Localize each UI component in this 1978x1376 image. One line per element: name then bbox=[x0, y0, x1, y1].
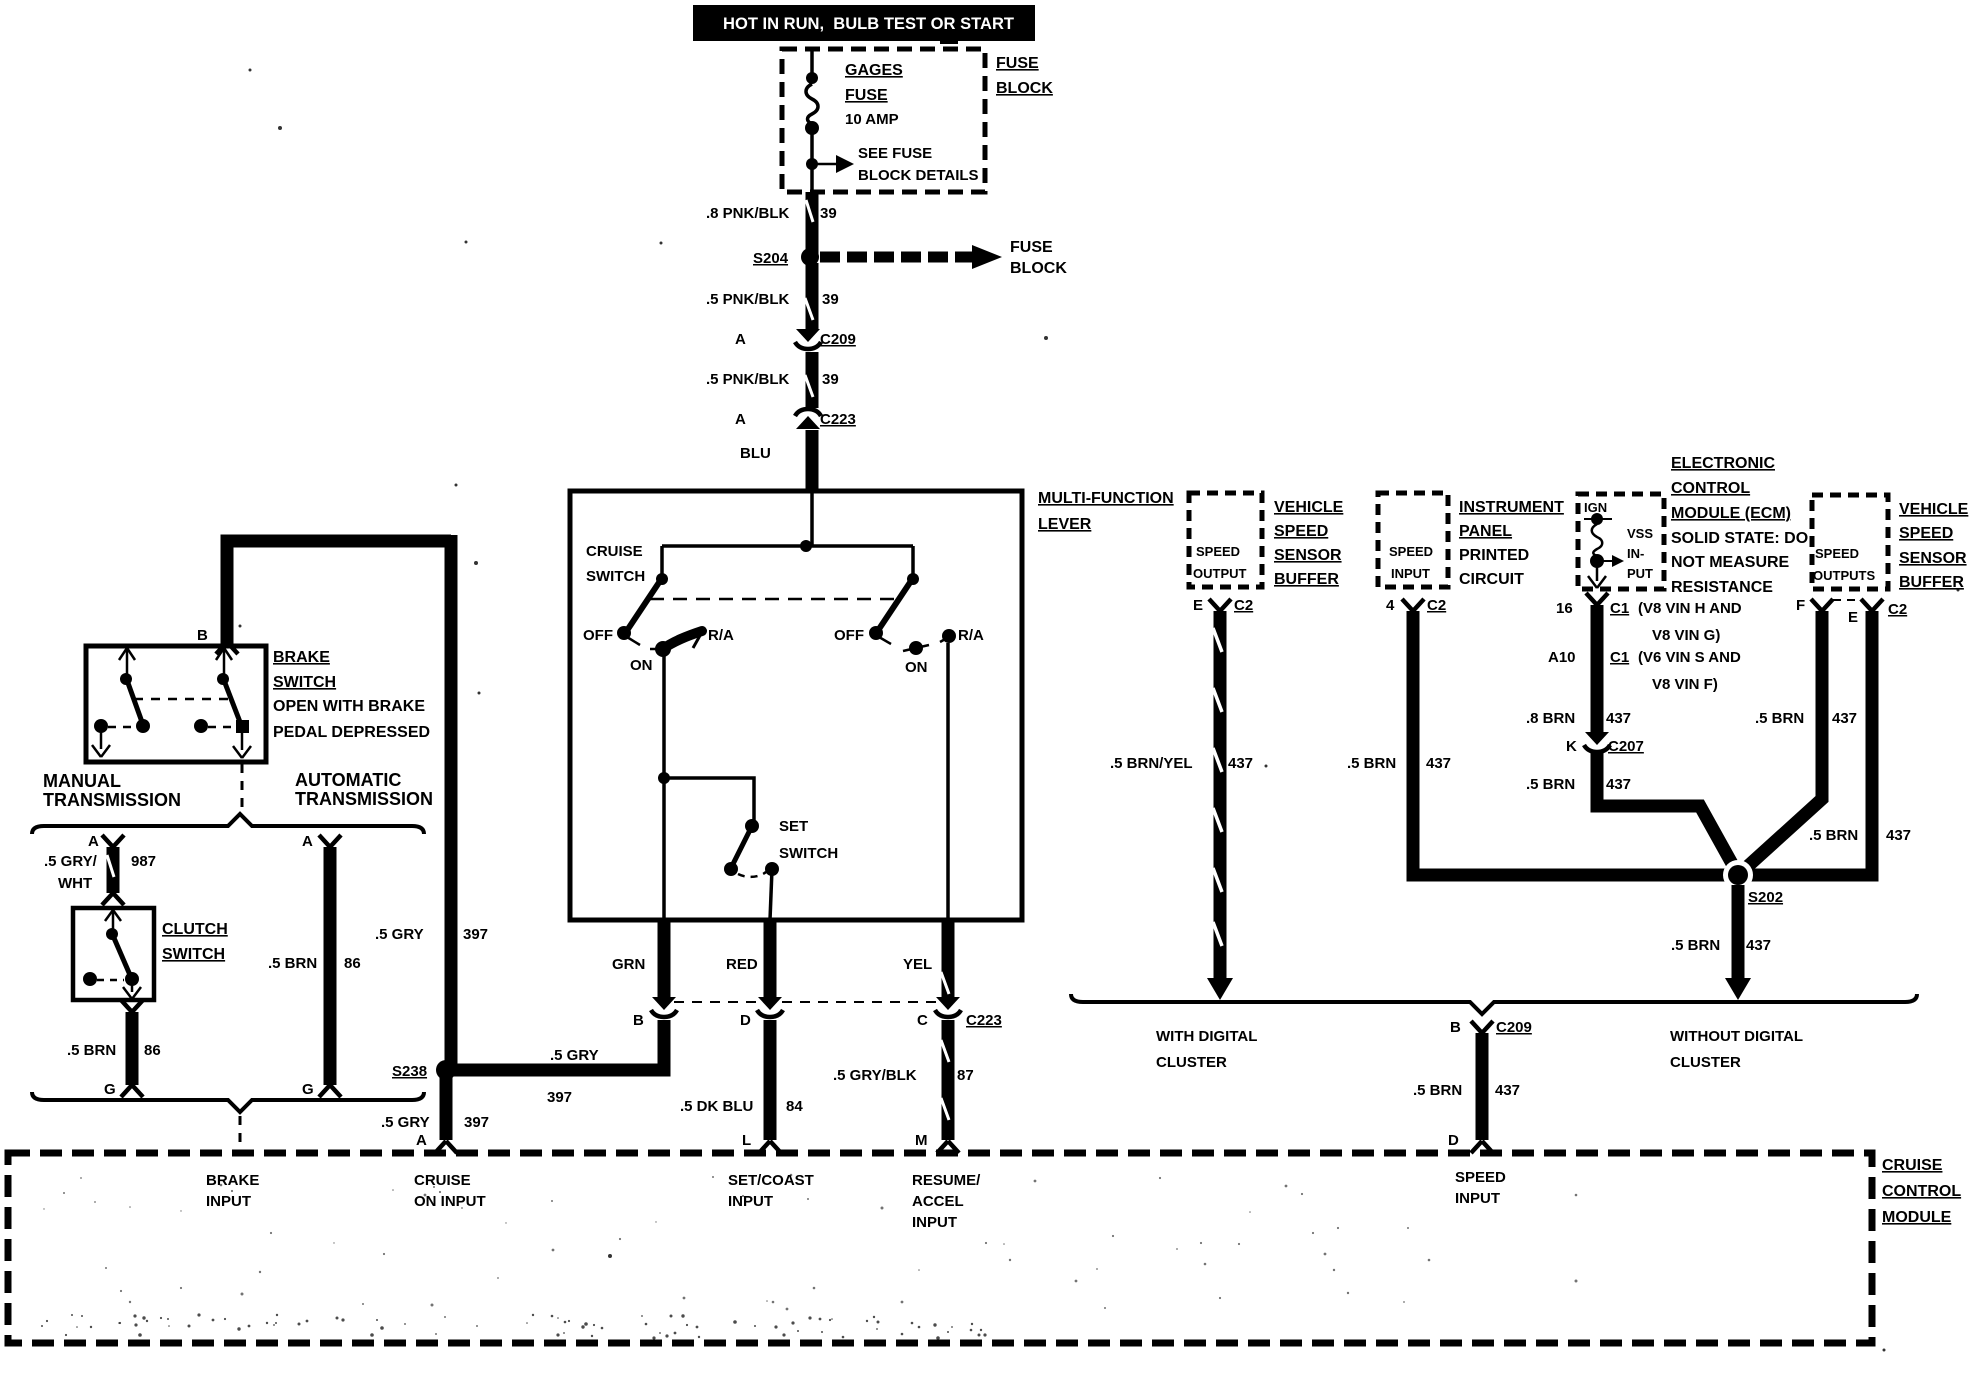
svg-text:SPEED: SPEED bbox=[1899, 525, 1953, 542]
speed input dashed box (instrument panel) bbox=[1378, 493, 1448, 587]
svg-text:V8 VIN G): V8 VIN G) bbox=[1652, 627, 1720, 644]
svg-text:437: 437 bbox=[1495, 1082, 1520, 1099]
label SPEED INPUT (module) bbox=[1455, 1169, 1506, 1207]
svg-text:INPUT: INPUT bbox=[728, 1193, 773, 1210]
dashed wire brace to module (brake input) bbox=[239, 1116, 242, 1152]
label RESUME/ACCEL INPUT bbox=[912, 1172, 981, 1231]
ECM dashed box bbox=[1578, 494, 1664, 589]
splice S238 bbox=[392, 1060, 456, 1080]
svg-text:SWITCH: SWITCH bbox=[273, 674, 336, 691]
svg-text:FUSE: FUSE bbox=[996, 55, 1039, 72]
svg-text:87: 87 bbox=[957, 1067, 974, 1084]
svg-text:MODULE: MODULE bbox=[1882, 1209, 1952, 1226]
dashed link brake switch middle bbox=[134, 698, 233, 701]
svg-text:.8 PNK/BLK: .8 PNK/BLK bbox=[706, 205, 790, 222]
svg-text:A: A bbox=[735, 411, 746, 428]
label CRUISE CONTROL MODULE bbox=[1882, 1157, 1961, 1226]
svg-text:CRUISE: CRUISE bbox=[586, 543, 643, 560]
label GAGES FUSE 10 AMP bbox=[845, 62, 903, 128]
connector C223 pin B bbox=[633, 997, 677, 1029]
label SET/COAST INPUT bbox=[728, 1172, 814, 1210]
svg-text:PRINTED: PRINTED bbox=[1459, 547, 1529, 564]
terminal E C2 (right box) bbox=[1833, 599, 1907, 626]
terminal E C2 bbox=[1193, 597, 1253, 614]
svg-text:(V8 VIN H AND: (V8 VIN H AND bbox=[1638, 600, 1742, 617]
svg-text:C209: C209 bbox=[1496, 1019, 1532, 1036]
label MANUAL TRANSMISSION bbox=[43, 771, 181, 810]
svg-text:.5 GRY: .5 GRY bbox=[381, 1114, 430, 1131]
svg-text:ELECTRONIC: ELECTRONIC bbox=[1671, 455, 1775, 472]
svg-text:SEE FUSE: SEE FUSE bbox=[858, 145, 932, 162]
svg-text:B: B bbox=[1450, 1019, 1461, 1036]
see fuse block details arrow bbox=[806, 145, 979, 184]
label FUSE BLOCK (right of box) bbox=[996, 55, 1053, 97]
svg-text:BLOCK DETAILS: BLOCK DETAILS bbox=[858, 167, 979, 184]
svg-text:ON: ON bbox=[905, 659, 928, 676]
connector C209 pin A bbox=[735, 329, 856, 349]
svg-text:CLUTCH: CLUTCH bbox=[162, 921, 228, 938]
svg-text:SPEED: SPEED bbox=[1274, 523, 1328, 540]
svg-text:A: A bbox=[88, 833, 99, 850]
brake switch left pole bbox=[92, 648, 150, 757]
svg-text:437: 437 bbox=[1426, 755, 1451, 772]
right OFF contact bbox=[834, 626, 891, 644]
svg-text:OUTPUTS: OUTPUTS bbox=[1813, 568, 1875, 583]
svg-text:SPEED: SPEED bbox=[1815, 546, 1859, 561]
svg-text:.5 GRY: .5 GRY bbox=[375, 926, 424, 943]
wire .5 BRN 437 (F to S202) bbox=[1737, 611, 1857, 876]
wire YEL (lever to C223 C) bbox=[903, 920, 949, 998]
wire .5 GRY 397 (S238 to cruise on drop) bbox=[547, 1047, 599, 1106]
svg-text:437: 437 bbox=[1886, 827, 1911, 844]
svg-text:397: 397 bbox=[464, 1114, 489, 1131]
svg-text:G: G bbox=[104, 1081, 116, 1098]
svg-text:.5 PNK/BLK: .5 PNK/BLK bbox=[706, 371, 790, 388]
svg-text:SWITCH: SWITCH bbox=[162, 946, 225, 963]
wire .5 BRN 437 (speed input to S202) bbox=[1347, 611, 1738, 875]
svg-text:SENSOR: SENSOR bbox=[1899, 550, 1967, 567]
wire BLU stub inside box bbox=[810, 491, 814, 546]
svg-text:437: 437 bbox=[1606, 710, 1631, 727]
svg-text:CLUSTER: CLUSTER bbox=[1670, 1054, 1741, 1071]
svg-text:M: M bbox=[915, 1132, 928, 1149]
svg-text:.5 BRN: .5 BRN bbox=[1347, 755, 1396, 772]
svg-text:.5 BRN: .5 BRN bbox=[1755, 710, 1804, 727]
brace speed input collect bbox=[1071, 994, 1917, 1014]
ECM IGN ignition feed bbox=[1584, 500, 1612, 556]
right R/A contact bbox=[940, 627, 984, 644]
svg-text:S202: S202 bbox=[1748, 889, 1783, 906]
label CRUISE SWITCH bbox=[586, 543, 645, 585]
fuse block dashed box bbox=[782, 49, 985, 192]
svg-text:.5 GRY: .5 GRY bbox=[550, 1047, 599, 1064]
svg-text:C223: C223 bbox=[966, 1012, 1002, 1029]
left cruise switch contact + blade bbox=[628, 546, 668, 629]
svg-text:39: 39 bbox=[822, 291, 839, 308]
svg-text:GRN: GRN bbox=[612, 956, 645, 973]
svg-text:PEDAL DEPRESSED: PEDAL DEPRESSED bbox=[273, 724, 430, 741]
svg-text:84: 84 bbox=[786, 1098, 803, 1115]
brace brake input collect bbox=[32, 1092, 424, 1112]
svg-text:BLOCK: BLOCK bbox=[996, 80, 1053, 97]
speed output dashed box (VSS buffer) bbox=[1189, 493, 1262, 587]
svg-text:86: 86 bbox=[144, 1042, 161, 1059]
ECM VSS input node bbox=[1588, 526, 1653, 588]
svg-text:BLOCK: BLOCK bbox=[1010, 260, 1067, 277]
svg-text:S238: S238 bbox=[392, 1063, 427, 1080]
svg-text:C1: C1 bbox=[1610, 600, 1629, 617]
wire .8 PNK/BLK 39 (fuse block to S204) bbox=[706, 192, 837, 257]
svg-text:WITHOUT DIGITAL: WITHOUT DIGITAL bbox=[1670, 1028, 1803, 1045]
svg-text:MANUAL: MANUAL bbox=[43, 771, 121, 791]
svg-text:CIRCUIT: CIRCUIT bbox=[1459, 571, 1524, 588]
svg-text:V8 VIN F): V8 VIN F) bbox=[1652, 676, 1718, 693]
terminal 16 C1 / A10 C1 bbox=[1548, 593, 1742, 693]
svg-text:OFF: OFF bbox=[583, 627, 613, 644]
wire from ON contact down bbox=[662, 652, 666, 920]
svg-text:BUFFER: BUFFER bbox=[1274, 571, 1339, 588]
multi-function lever box bbox=[570, 491, 1022, 920]
svg-text:BUFFER: BUFFER bbox=[1899, 574, 1964, 591]
connector C223 pin C bbox=[917, 997, 1002, 1029]
svg-text:.5 GRY/: .5 GRY/ bbox=[44, 853, 98, 870]
svg-text:IN-: IN- bbox=[1627, 546, 1644, 561]
connector C223 pin A (top) bbox=[735, 409, 856, 429]
svg-text:SENSOR: SENSOR bbox=[1274, 547, 1342, 564]
svg-text:CRUISE: CRUISE bbox=[414, 1172, 471, 1189]
svg-text:.5 BRN: .5 BRN bbox=[1413, 1082, 1462, 1099]
right cruise switch contact + blade bbox=[879, 546, 919, 629]
clutch switch pole bbox=[83, 910, 141, 999]
wire .5 GRY 397 (S238 to module A) bbox=[381, 1076, 489, 1153]
svg-text:INPUT: INPUT bbox=[1391, 566, 1430, 581]
svg-text:VEHICLE: VEHICLE bbox=[1899, 501, 1969, 518]
svg-text:L: L bbox=[742, 1132, 751, 1149]
svg-text:397: 397 bbox=[547, 1089, 572, 1106]
wire .5 PNK/BLK 39 (S204 to C209) bbox=[706, 263, 839, 330]
wire .5 BRN 437 (C209 to module D) bbox=[1413, 1033, 1520, 1153]
label VEHICLE SPEED SENSOR BUFFER (left) bbox=[1274, 499, 1344, 588]
fuse F (GAGES FUSE symbol) bbox=[805, 49, 819, 192]
terminal A (clutch branch) bbox=[88, 833, 124, 850]
svg-text:C2: C2 bbox=[1427, 597, 1446, 614]
svg-text:LEVER: LEVER bbox=[1038, 516, 1092, 533]
svg-text:D: D bbox=[1448, 1132, 1459, 1149]
svg-text:INPUT: INPUT bbox=[912, 1214, 957, 1231]
svg-text:437: 437 bbox=[1228, 755, 1253, 772]
terminal A (automatic branch) bbox=[302, 833, 341, 850]
svg-text:ACCEL: ACCEL bbox=[912, 1193, 964, 1210]
svg-text:4: 4 bbox=[1386, 597, 1395, 614]
svg-text:OUTPUT: OUTPUT bbox=[1193, 566, 1247, 581]
dashed arrow S204 to fuse block bbox=[820, 239, 1067, 277]
speed outputs dashed box (VSS buffer right) bbox=[1812, 495, 1888, 589]
wire .5 PNK/BLK 39 (C209 to C223) bbox=[706, 352, 839, 408]
svg-text:C2: C2 bbox=[1888, 601, 1907, 618]
svg-text:INPUT: INPUT bbox=[206, 1193, 251, 1210]
wire .5 BRN/YEL 437 (striped, to with-digital cluster) bbox=[1110, 611, 1253, 1000]
svg-text:SPEED: SPEED bbox=[1389, 544, 1433, 559]
svg-text:A: A bbox=[416, 1132, 427, 1149]
svg-text:TRANSMISSION: TRANSMISSION bbox=[43, 790, 181, 810]
svg-text:C2: C2 bbox=[1234, 597, 1253, 614]
svg-text:.5 DK BLU: .5 DK BLU bbox=[680, 1098, 753, 1115]
banner HOT IN RUN, BULB TEST OR START bbox=[693, 5, 1035, 44]
brace transmission split bbox=[32, 814, 424, 834]
svg-text:CONTROL: CONTROL bbox=[1882, 1183, 1961, 1200]
svg-text:E: E bbox=[1193, 597, 1203, 614]
svg-text:.5 BRN: .5 BRN bbox=[268, 955, 317, 972]
label VEHICLE SPEED SENSOR BUFFER (right) bbox=[1899, 501, 1969, 591]
dashed wire brake switch to brace bbox=[241, 764, 244, 812]
right ON contact bbox=[903, 641, 929, 676]
svg-text:S204: S204 bbox=[753, 250, 789, 267]
svg-text:GAGES: GAGES bbox=[845, 62, 903, 79]
wire .5 GRY/WHT 987 bbox=[44, 847, 156, 905]
splice S202 bbox=[1723, 860, 1783, 906]
brake switch box bbox=[86, 646, 266, 762]
svg-text:C209: C209 bbox=[820, 331, 856, 348]
svg-text:HOT IN RUN, BULB TEST OR STAR: HOT IN RUN, BULB TEST OR START bbox=[723, 14, 1015, 33]
label CLUTCH SWITCH bbox=[162, 921, 228, 963]
label BRAKE SWITCH OPEN WITH BRAKE PEDAL DEPRESSED bbox=[273, 649, 430, 741]
svg-text:SWITCH: SWITCH bbox=[779, 845, 838, 862]
label AUTOMATIC TRANSMISSION bbox=[295, 770, 433, 809]
wire .5 BRN 437 (E/C2 to S202 rail) bbox=[1738, 611, 1911, 875]
wire GRN (lever to C223 B) bbox=[612, 920, 664, 998]
svg-text:C: C bbox=[917, 1012, 928, 1029]
svg-text:RESUME/: RESUME/ bbox=[912, 1172, 981, 1189]
svg-text:39: 39 bbox=[820, 205, 837, 222]
label CRUISE ON INPUT bbox=[414, 1172, 486, 1210]
svg-text:SOLID STATE: DO: SOLID STATE: DO bbox=[1671, 530, 1808, 547]
svg-text:VEHICLE: VEHICLE bbox=[1274, 499, 1344, 516]
brake switch right pole bbox=[194, 648, 251, 758]
svg-text:.5 PNK/BLK: .5 PNK/BLK bbox=[706, 291, 790, 308]
svg-text:437: 437 bbox=[1606, 776, 1631, 793]
svg-text:BRAKE: BRAKE bbox=[206, 1172, 259, 1189]
svg-text:.5 BRN: .5 BRN bbox=[1809, 827, 1858, 844]
svg-text:BRAKE: BRAKE bbox=[273, 649, 330, 666]
svg-text:437: 437 bbox=[1832, 710, 1857, 727]
terminal 4 C2 bbox=[1386, 597, 1446, 614]
label MULTI-FUNCTION LEVER bbox=[1038, 490, 1174, 533]
svg-text:CONTROL: CONTROL bbox=[1671, 480, 1750, 497]
svg-text:IGN: IGN bbox=[1584, 500, 1607, 515]
svg-text:OFF: OFF bbox=[834, 627, 864, 644]
connector C209 pin B bbox=[1450, 1019, 1532, 1036]
svg-text:.5 BRN/YEL: .5 BRN/YEL bbox=[1110, 755, 1193, 772]
wire .5 BRN 86 (clutch to brace) bbox=[67, 1000, 161, 1098]
wire BLU (C223 to multi-function lever) bbox=[740, 430, 812, 491]
svg-text:SPEED: SPEED bbox=[1455, 1169, 1506, 1186]
svg-text:YEL: YEL bbox=[903, 956, 932, 973]
wire .5 BRN 437 (S202 to without-digital cluster) bbox=[1671, 885, 1771, 1000]
svg-text:F: F bbox=[1796, 597, 1805, 614]
wire RED (lever to C223 D) bbox=[726, 920, 770, 998]
svg-text:A: A bbox=[735, 331, 746, 348]
svg-text:.5 BRN: .5 BRN bbox=[1526, 776, 1575, 793]
clutch switch box bbox=[73, 908, 154, 1000]
svg-text:A10: A10 bbox=[1548, 649, 1576, 666]
wire .5 BRN 86 (automatic branch) bbox=[268, 847, 361, 1098]
svg-text:CRUISE: CRUISE bbox=[1882, 1157, 1943, 1174]
svg-text:(V6 VIN S AND: (V6 VIN S AND bbox=[1638, 649, 1741, 666]
svg-text:CLUSTER: CLUSTER bbox=[1156, 1054, 1227, 1071]
svg-text:SWITCH: SWITCH bbox=[586, 568, 645, 585]
label BRAKE INPUT bbox=[206, 1172, 259, 1210]
svg-text:86: 86 bbox=[344, 955, 361, 972]
svg-text:SET/COAST: SET/COAST bbox=[728, 1172, 814, 1189]
svg-text:.8 BRN: .8 BRN bbox=[1526, 710, 1575, 727]
svg-text:.5 BRN: .5 BRN bbox=[1671, 937, 1720, 954]
wire brake feed (B up and over to .5 GRY drop) bbox=[227, 535, 488, 1070]
terminal F bbox=[1796, 597, 1833, 614]
wire .8 BRN 437 (ECM to C207) bbox=[1526, 605, 1631, 733]
wire .5 GRY/BLK 87 (C to module M) bbox=[833, 1020, 974, 1153]
svg-text:INPUT: INPUT bbox=[1455, 1190, 1500, 1207]
svg-text:R/A: R/A bbox=[708, 627, 734, 644]
label INSTRUMENT PANEL PRINTED CIRCUIT bbox=[1459, 499, 1564, 588]
svg-text:FUSE: FUSE bbox=[845, 87, 888, 104]
svg-text:WITH DIGITAL: WITH DIGITAL bbox=[1156, 1028, 1257, 1045]
svg-text:.5 BRN: .5 BRN bbox=[67, 1042, 116, 1059]
svg-text:E: E bbox=[1848, 609, 1858, 626]
svg-text:397: 397 bbox=[463, 926, 488, 943]
node top rail of cruise switch bbox=[662, 540, 913, 552]
svg-text:MODULE (ECM): MODULE (ECM) bbox=[1671, 505, 1791, 522]
svg-text:C1: C1 bbox=[1610, 649, 1629, 666]
svg-text:39: 39 bbox=[822, 371, 839, 388]
svg-text:INSTRUMENT: INSTRUMENT bbox=[1459, 499, 1564, 516]
dashed connector gang line C223 bbox=[674, 1001, 938, 1003]
svg-text:16: 16 bbox=[1556, 600, 1573, 617]
splice S204 bbox=[753, 248, 819, 267]
svg-text:SPEED: SPEED bbox=[1196, 544, 1240, 559]
svg-text:B: B bbox=[633, 1012, 644, 1029]
svg-text:G: G bbox=[302, 1081, 314, 1098]
set switch bbox=[724, 818, 838, 920]
svg-text:VSS: VSS bbox=[1627, 526, 1653, 541]
svg-text:A: A bbox=[302, 833, 313, 850]
dashed gang line of cruise switch bbox=[650, 598, 903, 601]
svg-text:C207: C207 bbox=[1608, 738, 1644, 755]
svg-text:OPEN WITH BRAKE: OPEN WITH BRAKE bbox=[273, 698, 425, 715]
svg-text:ON: ON bbox=[630, 657, 653, 674]
svg-text:MULTI-FUNCTION: MULTI-FUNCTION bbox=[1038, 490, 1174, 507]
svg-text:B: B bbox=[197, 627, 208, 644]
svg-text:PUT: PUT bbox=[1627, 566, 1653, 581]
wire .5 DK BLU 84 (D to module L) bbox=[680, 1020, 803, 1153]
terminal B (brake switch) bbox=[197, 627, 238, 654]
connector C223 pin D bbox=[740, 997, 783, 1029]
svg-text:AUTOMATIC: AUTOMATIC bbox=[295, 770, 401, 790]
wire from R/A contact down bbox=[946, 643, 950, 920]
left OFF contact bbox=[583, 626, 640, 645]
label WITH DIGITAL CLUSTER bbox=[1156, 1028, 1257, 1071]
svg-text:987: 987 bbox=[131, 853, 156, 870]
svg-text:TRANSMISSION: TRANSMISSION bbox=[295, 789, 433, 809]
svg-text:PANEL: PANEL bbox=[1459, 523, 1512, 540]
svg-text:10 AMP: 10 AMP bbox=[845, 111, 899, 128]
wire .5 BRN 437 (C207 to S202) bbox=[1526, 753, 1740, 878]
svg-text:D: D bbox=[740, 1012, 751, 1029]
svg-text:C223: C223 bbox=[820, 411, 856, 428]
cruise control module dashed box bbox=[8, 1153, 1872, 1343]
svg-text:R/A: R/A bbox=[958, 627, 984, 644]
wire GRN below B to S238 elbow bbox=[446, 1020, 664, 1070]
svg-text:.5 GRY/BLK: .5 GRY/BLK bbox=[833, 1067, 917, 1084]
svg-text:SET: SET bbox=[779, 818, 808, 835]
svg-text:437: 437 bbox=[1746, 937, 1771, 954]
svg-text:BLU: BLU bbox=[740, 445, 771, 462]
svg-text:RED: RED bbox=[726, 956, 758, 973]
svg-text:RESISTANCE: RESISTANCE bbox=[1671, 579, 1773, 596]
label ELECTRONIC CONTROL MODULE (ECM) bbox=[1671, 455, 1808, 596]
svg-text:NOT MEASURE: NOT MEASURE bbox=[1671, 554, 1790, 571]
svg-text:WHT: WHT bbox=[58, 875, 92, 892]
svg-text:FUSE: FUSE bbox=[1010, 239, 1053, 256]
junction to set switch bbox=[658, 772, 754, 822]
label WITHOUT DIGITAL CLUSTER bbox=[1670, 1028, 1803, 1071]
svg-text:K: K bbox=[1566, 738, 1577, 755]
connector C207 pin K bbox=[1566, 732, 1644, 755]
left R/A arc wiper bbox=[630, 627, 734, 674]
